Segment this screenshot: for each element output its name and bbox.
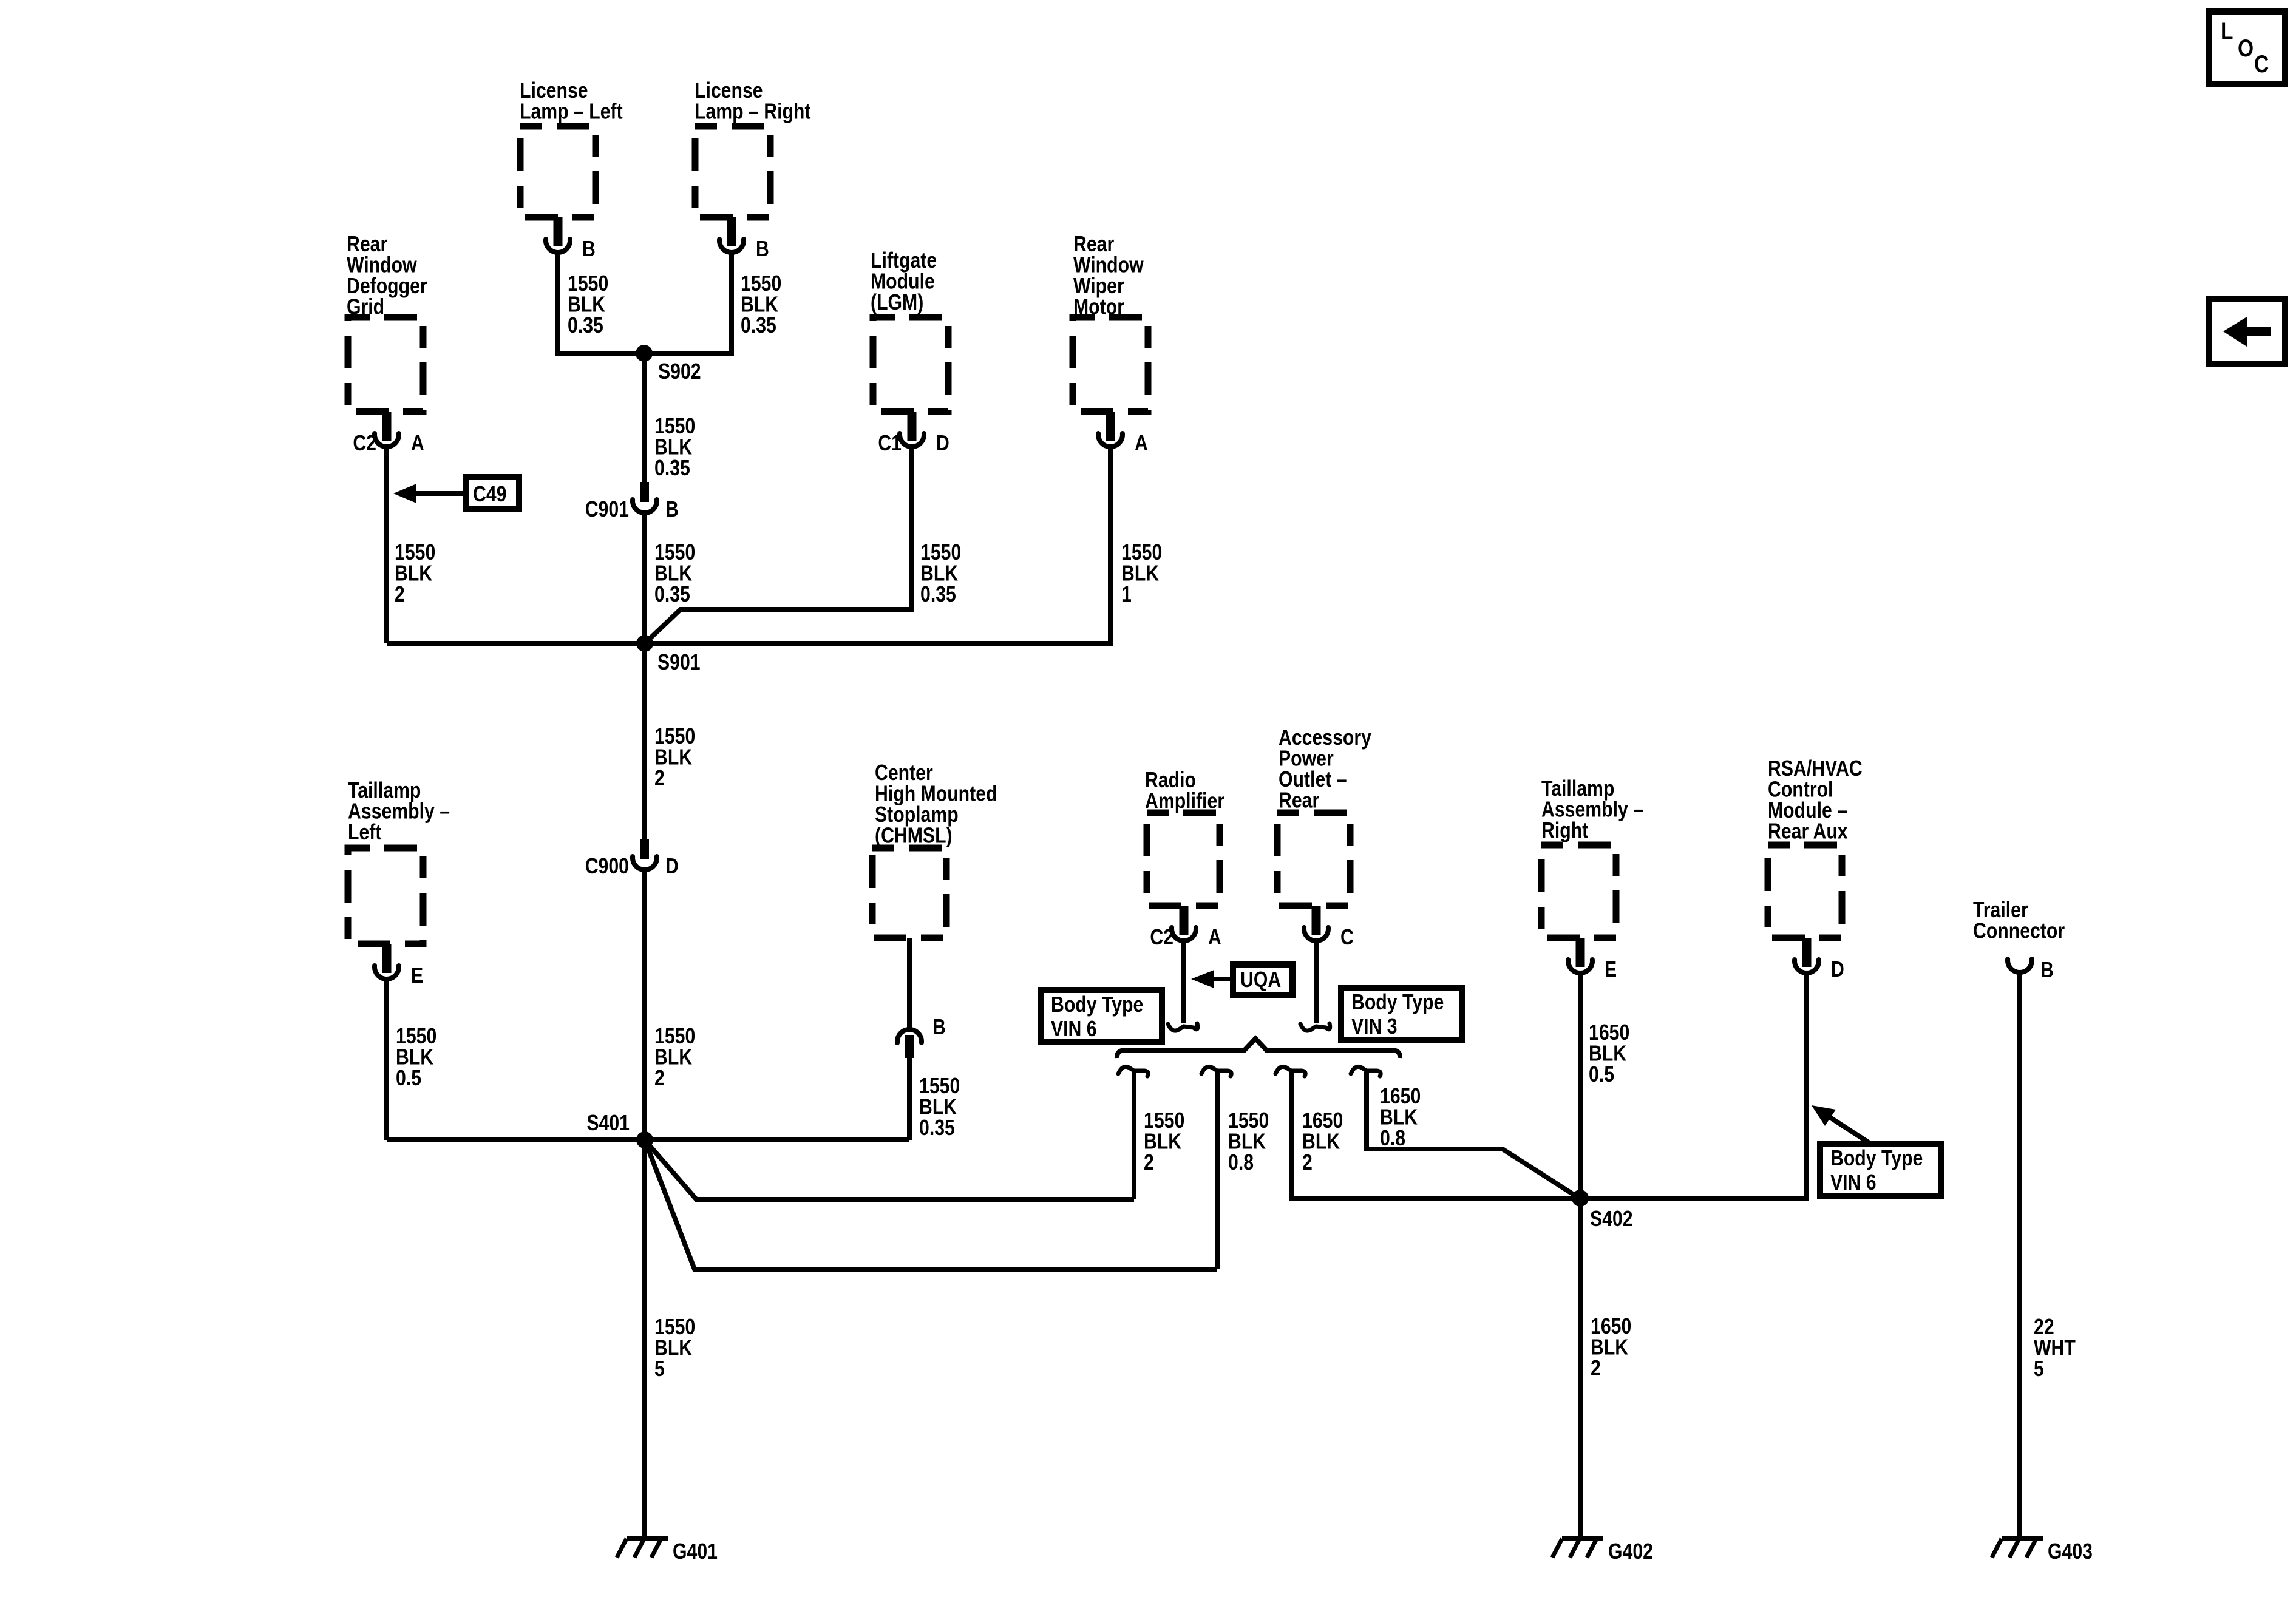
svg-text:2: 2 [395,583,405,607]
svg-text:D: D [1831,958,1844,982]
svg-text:2: 2 [1302,1151,1313,1175]
svg-text:C: C [2254,50,2269,77]
svg-text:S402: S402 [1590,1207,1633,1232]
svg-text:0.35: 0.35 [654,583,690,607]
svg-text:C2: C2 [1150,926,1173,950]
svg-text:A: A [411,432,424,456]
svg-text:2: 2 [654,767,665,791]
svg-text:B: B [2040,958,2054,983]
svg-text:(LGM): (LGM) [871,291,923,315]
svg-text:2: 2 [1144,1151,1154,1175]
svg-text:B: B [665,498,679,522]
svg-text:C: C [1340,926,1354,950]
svg-text:C901: C901 [585,498,629,522]
svg-text:E: E [1605,958,1617,982]
svg-text:VIN 6: VIN 6 [1051,1017,1097,1042]
svg-text:L: L [2221,18,2233,44]
svg-text:0.5: 0.5 [1589,1063,1614,1087]
svg-text:C49: C49 [473,483,506,507]
svg-text:A: A [1135,432,1148,456]
svg-text:D: D [936,432,949,456]
svg-text:C2: C2 [353,432,376,456]
svg-text:S401: S401 [586,1111,630,1136]
svg-text:B: B [582,237,596,262]
svg-text:A: A [1208,926,1221,950]
svg-text:O: O [2238,35,2254,61]
svg-text:0.8: 0.8 [1228,1151,1254,1175]
svg-text:Left: Left [348,821,381,845]
svg-text:VIN 3: VIN 3 [1351,1015,1398,1039]
svg-text:B: B [932,1015,946,1040]
svg-text:0.35: 0.35 [919,1116,955,1141]
svg-text:D: D [665,855,679,879]
svg-text:Right: Right [1541,819,1588,843]
svg-text:0.5: 0.5 [396,1066,421,1091]
svg-text:Body Type: Body Type [1830,1147,1923,1171]
svg-text:B: B [756,237,769,262]
svg-text:5: 5 [654,1357,665,1381]
svg-text:2: 2 [654,1066,665,1091]
svg-text:Body Type: Body Type [1051,993,1143,1017]
svg-text:0.35: 0.35 [741,314,776,338]
svg-text:Lamp – Right: Lamp – Right [695,100,810,124]
svg-text:1: 1 [1121,583,1132,607]
svg-text:Rear: Rear [1279,788,1319,813]
svg-text:(CHMSL): (CHMSL) [875,824,953,848]
svg-text:2: 2 [1591,1357,1601,1381]
svg-text:UQA: UQA [1240,968,1281,992]
svg-text:G401: G401 [673,1540,718,1564]
svg-text:0.8: 0.8 [1380,1127,1405,1151]
svg-text:5: 5 [2034,1357,2044,1381]
svg-text:G402: G402 [1608,1540,1653,1564]
svg-text:G403: G403 [2048,1540,2093,1564]
svg-text:C1: C1 [878,432,902,456]
svg-text:E: E [411,964,423,988]
svg-text:Connector: Connector [1973,919,2065,943]
svg-text:0.35: 0.35 [568,314,603,338]
svg-text:VIN 6: VIN 6 [1830,1171,1877,1195]
svg-text:0.35: 0.35 [920,583,956,607]
svg-text:S902: S902 [658,360,701,384]
svg-text:Rear Aux: Rear Aux [1768,819,1848,844]
svg-text:S901: S901 [657,651,701,675]
svg-text:Lamp – Left: Lamp – Left [520,100,623,124]
svg-text:Body Type: Body Type [1351,991,1444,1015]
svg-text:C900: C900 [585,855,629,879]
svg-text:0.35: 0.35 [654,456,690,481]
